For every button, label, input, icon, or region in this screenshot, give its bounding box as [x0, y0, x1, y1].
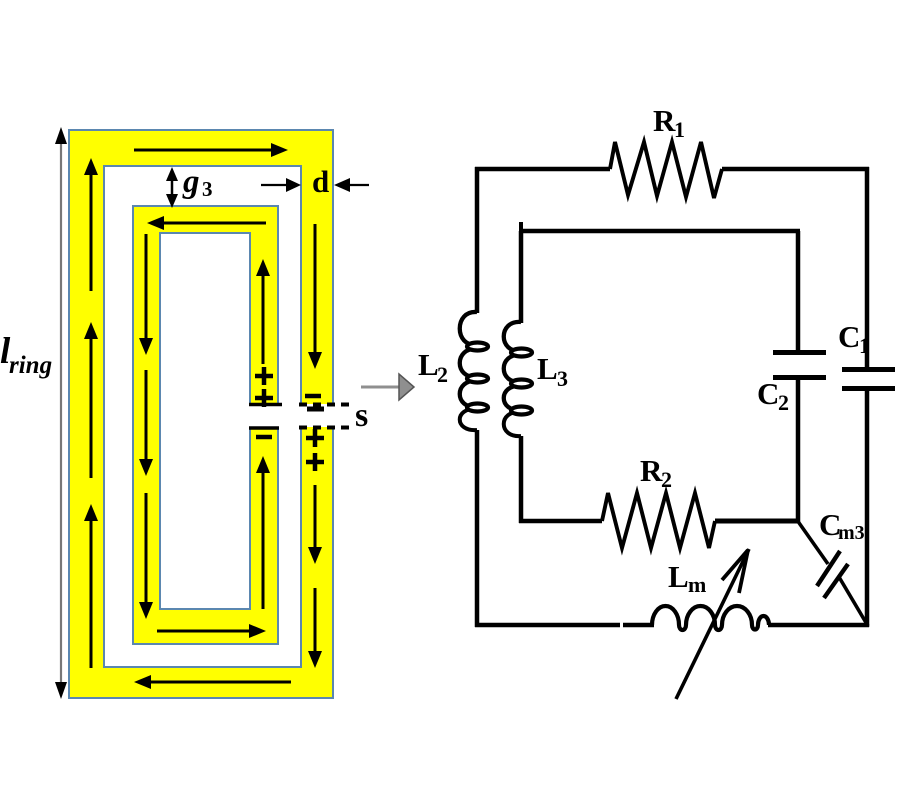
label L2 — [418, 347, 448, 387]
plus charge outer arm lower 1 — [306, 429, 324, 447]
inner ring gap upper edge — [249, 403, 282, 407]
resistor R2 — [602, 493, 715, 548]
svg-text:2: 2 — [778, 390, 789, 415]
dimension d left arrow — [261, 178, 301, 192]
label C1 — [838, 319, 870, 358]
inner split ring — [133, 206, 278, 644]
svg-text:2: 2 — [437, 362, 448, 387]
label g3 — [182, 164, 213, 201]
svg-text:d: d — [312, 164, 329, 199]
svg-text:R: R — [653, 103, 676, 138]
plus charge inner arm upper 2 — [255, 389, 273, 407]
svg-text:L: L — [668, 559, 689, 594]
current arrow outer left band 3 — [84, 504, 98, 668]
capacitor Cm3 — [817, 551, 848, 598]
inner ring gap lower edge — [249, 426, 279, 430]
wire outer loop bottom left — [475, 623, 654, 628]
svg-text:m3: m3 — [838, 522, 865, 544]
current arrow outer top band — [134, 143, 288, 157]
plus charge inner arm upper 1 — [255, 367, 273, 385]
resistor R1 — [610, 142, 722, 198]
outer split ring — [69, 130, 333, 698]
wire inner loop left lower — [519, 436, 524, 523]
current arrow inner right band upper — [256, 259, 270, 364]
wire outer loop right lower — [865, 389, 870, 627]
svg-text:C: C — [757, 376, 779, 411]
label R2 — [640, 453, 672, 492]
gap edge dashed line upper (split s) — [299, 403, 353, 407]
label C2 — [757, 376, 789, 415]
inductor L3 — [504, 322, 532, 436]
wire diagonal lower (from Cm3) — [839, 577, 868, 626]
minus charge outer arm upper 1 — [305, 394, 321, 399]
svg-text:g: g — [182, 164, 200, 200]
svg-text:R: R — [640, 453, 663, 488]
label L3 — [537, 351, 568, 391]
svg-text:3: 3 — [202, 177, 213, 201]
svg-text:ring: ring — [9, 352, 52, 379]
current arrow outer bottom band — [134, 675, 291, 689]
svg-text:1: 1 — [674, 117, 685, 142]
joint gap in bottom wire — [620, 621, 623, 629]
transform arrow between SRR and circuit — [361, 374, 414, 400]
current arrow inner bottom band — [157, 624, 266, 638]
current arrow outer right band middle — [308, 485, 322, 564]
wire outer loop left lower — [475, 430, 480, 627]
label l_ring — [0, 331, 52, 379]
current arrow outer left band 1 — [84, 158, 98, 291]
wire inner loop bottom right — [715, 519, 800, 524]
wire inner loop right upper — [796, 231, 801, 351]
svg-text:2: 2 — [661, 467, 672, 492]
dimension d right arrow — [334, 178, 369, 192]
wire inner loop right lower — [796, 378, 801, 523]
label Cm3 — [819, 507, 865, 544]
current arrow outer left band 2 — [84, 322, 98, 478]
capacitor C2 — [773, 353, 826, 378]
current arrow inner right band lower — [256, 456, 270, 609]
svg-text:1: 1 — [859, 333, 870, 358]
svg-text:C: C — [838, 319, 860, 354]
gap in outer ring right arm — [297, 404, 337, 427]
gap edge dashed line lower (split s) — [299, 426, 354, 430]
svg-text:s: s — [355, 397, 368, 434]
label s — [355, 397, 368, 434]
wire outer loop right upper — [865, 167, 870, 368]
wire outer loop bottom right — [768, 623, 869, 628]
dimension l_ring arrow — [55, 127, 67, 699]
variable inductor arrow through Lm — [676, 549, 749, 699]
wire inner loop top stub — [519, 222, 523, 233]
wire outer loop top left — [475, 167, 610, 172]
inductor Lm — [652, 606, 769, 630]
current arrow outer right band upper — [308, 224, 322, 369]
minus charge inner arm lower — [256, 435, 272, 440]
wire diagonal upper (to Cm3) — [797, 520, 828, 564]
current arrow inner left band 1 — [139, 234, 153, 355]
wire outer loop top right — [722, 167, 869, 172]
plus charge outer arm lower 2 — [306, 453, 324, 471]
label R1 — [653, 103, 685, 142]
svg-text:m: m — [688, 572, 706, 597]
wire outer loop left upper — [475, 167, 480, 313]
current arrow inner left band 2 — [139, 370, 153, 476]
inductor L2 — [460, 312, 488, 430]
label d — [312, 164, 329, 199]
svg-text:L: L — [418, 347, 439, 382]
current arrow inner top band — [147, 216, 266, 230]
gap in inner ring right arm — [246, 405, 282, 428]
wire inner loop top — [519, 229, 800, 234]
current arrow outer right band lower — [308, 588, 322, 668]
current arrow inner left band 3 — [139, 493, 153, 619]
wire inner loop bottom left — [519, 519, 602, 524]
svg-text:3: 3 — [557, 366, 568, 391]
minus charge outer arm upper 2 — [307, 407, 324, 412]
wire inner loop left upper — [519, 231, 524, 323]
capacitor C1 — [842, 370, 895, 389]
svg-text:L: L — [537, 351, 558, 386]
label Lm — [668, 559, 706, 597]
dimension g3 double arrow — [166, 167, 178, 208]
